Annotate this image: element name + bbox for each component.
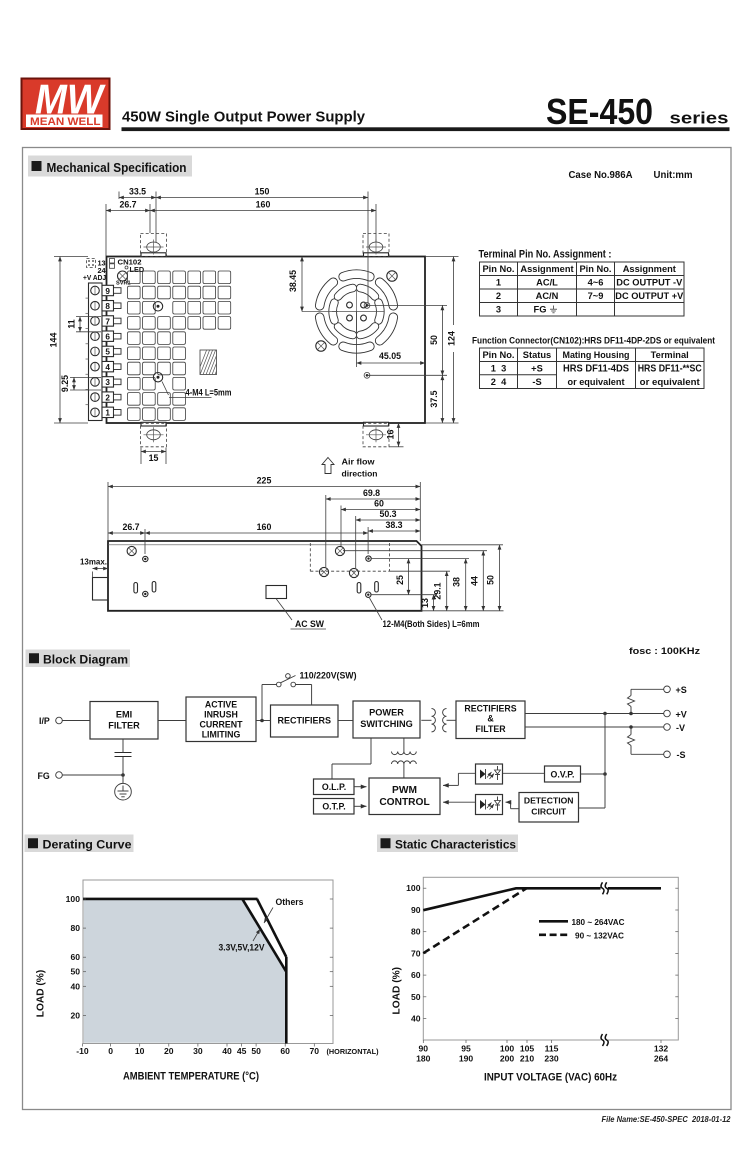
svg-text:LED: LED: [130, 265, 145, 274]
svg-text:EMI: EMI: [116, 710, 132, 720]
svg-text:45.05: 45.05: [379, 351, 401, 361]
svg-text:15: 15: [149, 453, 159, 463]
svg-text:AC/N: AC/N: [536, 291, 559, 301]
svg-text:60: 60: [411, 970, 421, 980]
svg-text:O.V.P.: O.V.P.: [551, 770, 575, 780]
svg-text:CIRCUIT: CIRCUIT: [531, 807, 567, 817]
svg-text:100: 100: [66, 894, 81, 904]
svg-text:or equivalent: or equivalent: [568, 377, 626, 388]
svg-text:Assignment: Assignment: [623, 264, 676, 274]
svg-text:160: 160: [256, 200, 271, 210]
svg-text:0: 0: [108, 1046, 113, 1056]
svg-text:60: 60: [70, 952, 80, 962]
svg-text:Block Diagram: Block Diagram: [43, 653, 128, 667]
svg-text:MEAN WELL: MEAN WELL: [30, 116, 101, 128]
svg-text:Static Characteristics: Static Characteristics: [395, 838, 516, 852]
svg-text:69.8: 69.8: [363, 488, 380, 498]
svg-text:O.L.P.: O.L.P.: [322, 782, 346, 792]
svg-text:90 ~ 132VAC: 90 ~ 132VAC: [575, 931, 625, 941]
svg-text:LIMITING: LIMITING: [202, 730, 241, 740]
svg-text:Mechanical Specification: Mechanical Specification: [47, 160, 187, 175]
svg-text:CURRENT: CURRENT: [199, 720, 243, 730]
svg-text:DC OUTPUT +V: DC OUTPUT +V: [615, 291, 684, 301]
svg-text:20: 20: [70, 1010, 80, 1020]
svg-text:SWITCHING: SWITCHING: [360, 719, 413, 729]
svg-text:4~6: 4~6: [588, 278, 604, 288]
svg-text:26.7: 26.7: [122, 522, 139, 532]
svg-text:FILTER: FILTER: [108, 721, 140, 731]
svg-text:Case No.986A: Case No.986A: [569, 170, 634, 181]
svg-text:1: 1: [105, 409, 110, 418]
svg-text:160: 160: [257, 522, 272, 532]
svg-text:O.T.P.: O.T.P.: [322, 802, 345, 812]
svg-text:70: 70: [411, 948, 421, 958]
svg-text:-V: -V: [676, 723, 685, 733]
svg-text:2: 2: [496, 291, 501, 301]
svg-text:CONTROL: CONTROL: [379, 797, 429, 808]
svg-text:50: 50: [70, 967, 80, 977]
svg-text:FILTER: FILTER: [475, 724, 506, 734]
svg-text:3.3V,5V,12V: 3.3V,5V,12V: [219, 943, 265, 953]
svg-text:AC SW: AC SW: [295, 619, 325, 629]
svg-text:44: 44: [470, 576, 480, 586]
svg-text:50: 50: [411, 992, 421, 1002]
svg-text:+V: +V: [676, 709, 687, 719]
svg-text:Function Connector(CN102):HRS: Function Connector(CN102):HRS DF11-4DP-2…: [472, 336, 715, 346]
svg-text:13max.: 13max.: [80, 557, 107, 567]
svg-text:50: 50: [251, 1046, 261, 1056]
svg-text:ACTIVE: ACTIVE: [205, 700, 237, 710]
svg-text:fosc : 100KHz: fosc : 100KHz: [629, 646, 700, 656]
svg-text:AC/L: AC/L: [536, 278, 558, 288]
svg-text:DETECTION: DETECTION: [524, 796, 574, 806]
svg-text:PWM: PWM: [392, 785, 417, 796]
svg-text:Air flow: Air flow: [342, 457, 376, 467]
svg-text:1: 1: [496, 278, 501, 288]
svg-text:38: 38: [452, 577, 462, 587]
svg-text:Mating Housing: Mating Housing: [563, 350, 630, 360]
svg-text:33.5: 33.5: [129, 187, 146, 197]
svg-text:40: 40: [222, 1046, 232, 1056]
svg-text:Pin No.: Pin No.: [579, 264, 611, 274]
svg-text:INPUT VOLTAGE (VAC) 60Hz: INPUT VOLTAGE (VAC) 60Hz: [484, 1072, 617, 1084]
svg-text:90: 90: [419, 1044, 429, 1054]
svg-text:230: 230: [544, 1054, 559, 1064]
svg-text:115: 115: [545, 1044, 559, 1054]
svg-text:124: 124: [447, 331, 457, 346]
svg-text:50.3: 50.3: [379, 509, 396, 519]
svg-text:SE-450: SE-450: [546, 91, 653, 132]
svg-text:80: 80: [70, 923, 80, 933]
svg-text:5: 5: [105, 348, 110, 357]
svg-text:100: 100: [406, 883, 421, 893]
svg-text:POWER: POWER: [369, 708, 404, 718]
svg-text:16: 16: [386, 430, 396, 440]
svg-text:40: 40: [70, 981, 80, 991]
svg-text:DC OUTPUT -V: DC OUTPUT -V: [616, 278, 683, 288]
svg-text:+S: +S: [676, 685, 687, 695]
svg-text:Derating Curve: Derating Curve: [43, 838, 132, 852]
svg-text:Assignment: Assignment: [520, 264, 573, 274]
svg-text:6: 6: [105, 332, 110, 341]
svg-text:105: 105: [520, 1044, 535, 1054]
svg-text:+S: +S: [531, 364, 543, 374]
svg-text:2 4: 2 4: [491, 377, 507, 387]
svg-text:(HORIZONTAL): (HORIZONTAL): [327, 1047, 380, 1056]
svg-text:100: 100: [500, 1044, 515, 1054]
svg-text:60: 60: [374, 499, 384, 509]
svg-text:37.5: 37.5: [429, 390, 439, 407]
svg-text:225: 225: [257, 476, 272, 486]
svg-text:LOAD (%): LOAD (%): [36, 970, 47, 1018]
svg-text:3: 3: [496, 305, 501, 315]
svg-text:8: 8: [105, 302, 110, 311]
svg-text:90: 90: [411, 905, 421, 915]
svg-text:110/220V(SW): 110/220V(SW): [300, 671, 357, 681]
svg-text:Pin No.: Pin No.: [482, 350, 514, 360]
svg-text:File Name:SE-450-SPEC 2018-01: File Name:SE-450-SPEC 2018-01-12: [602, 1114, 731, 1124]
svg-text:29.1: 29.1: [433, 582, 443, 599]
svg-text:2: 2: [105, 393, 110, 402]
svg-text:LOAD (%): LOAD (%): [392, 967, 403, 1015]
svg-text:-10: -10: [76, 1046, 89, 1056]
svg-text:12-M4(Both Sides) L=6mm: 12-M4(Both Sides) L=6mm: [383, 619, 480, 629]
svg-text:45: 45: [237, 1046, 247, 1056]
svg-text:Terminal: Terminal: [651, 350, 689, 360]
svg-text:direction: direction: [342, 469, 378, 479]
svg-text:Terminal Pin No. Assignment :: Terminal Pin No. Assignment :: [479, 249, 612, 261]
svg-text:210: 210: [520, 1054, 535, 1064]
svg-text:50: 50: [429, 335, 439, 345]
svg-text:180 ~ 264VAC: 180 ~ 264VAC: [572, 917, 626, 927]
svg-text:1 3: 1 3: [491, 364, 507, 374]
svg-text:Pin No.: Pin No.: [482, 264, 514, 274]
svg-text:80: 80: [411, 927, 421, 937]
svg-text:7: 7: [105, 317, 110, 326]
svg-text:RECTIFIERS: RECTIFIERS: [278, 716, 332, 726]
svg-text:9.25: 9.25: [60, 375, 70, 392]
svg-text:50: 50: [486, 575, 496, 585]
svg-text:Status: Status: [523, 350, 551, 360]
svg-text:95: 95: [461, 1044, 471, 1054]
svg-text:FG: FG: [38, 771, 50, 781]
svg-text:38.3: 38.3: [385, 520, 402, 530]
svg-text:AMBIENT TEMPERATURE (°C): AMBIENT TEMPERATURE (°C): [123, 1071, 259, 1083]
svg-text:190: 190: [459, 1054, 474, 1064]
svg-text:25: 25: [395, 575, 405, 585]
svg-text:I/P: I/P: [39, 716, 50, 726]
svg-text:200: 200: [500, 1054, 515, 1064]
svg-text:-S: -S: [532, 377, 541, 387]
svg-text:144: 144: [49, 333, 59, 348]
svg-text:FG: FG: [534, 305, 547, 315]
svg-text:38.45: 38.45: [288, 270, 298, 292]
svg-text:Unit:mm: Unit:mm: [654, 170, 693, 181]
svg-text:7~9: 7~9: [588, 291, 604, 301]
svg-text:20: 20: [164, 1046, 174, 1056]
svg-text:Others: Others: [276, 897, 304, 907]
svg-text:180: 180: [416, 1054, 431, 1064]
svg-text:+V ADJ: +V ADJ: [83, 273, 106, 282]
svg-text:132: 132: [654, 1044, 669, 1054]
svg-text:RECTIFIERS: RECTIFIERS: [464, 704, 516, 714]
svg-text:4: 4: [105, 363, 110, 372]
svg-text:40: 40: [411, 1014, 421, 1024]
svg-text:series: series: [670, 110, 729, 128]
svg-text:60: 60: [280, 1046, 290, 1056]
svg-text:150: 150: [255, 187, 270, 197]
svg-text:450W Single Output Power Suppl: 450W Single Output Power Supply: [122, 109, 366, 126]
svg-text:3: 3: [105, 378, 110, 387]
svg-text:10: 10: [135, 1046, 145, 1056]
svg-text:&: &: [487, 714, 494, 724]
svg-text:-S: -S: [677, 750, 686, 760]
svg-text:9: 9: [105, 287, 110, 296]
svg-text:70: 70: [310, 1046, 320, 1056]
svg-text:264: 264: [654, 1054, 669, 1064]
svg-text:26.7: 26.7: [119, 200, 136, 210]
svg-text:4-M4 L=5mm: 4-M4 L=5mm: [186, 388, 232, 398]
svg-text:INRUSH: INRUSH: [204, 710, 238, 720]
svg-text:HRS DF11-4DS: HRS DF11-4DS: [563, 364, 629, 375]
svg-text:13: 13: [420, 598, 430, 608]
svg-text:11: 11: [67, 319, 77, 328]
svg-text:HRS DF11-**SC: HRS DF11-**SC: [638, 364, 703, 375]
svg-text:30: 30: [193, 1046, 203, 1056]
svg-text:or equivalent: or equivalent: [640, 377, 701, 388]
